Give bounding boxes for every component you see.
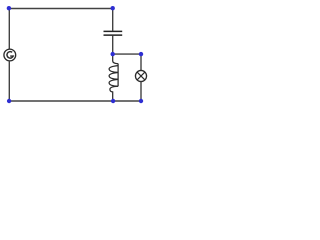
inductor exit loop and bottom lead [110, 86, 118, 101]
wire lamp bottom lead [140, 82, 142, 101]
inductor L coil entry lead [113, 54, 118, 64]
node bottom-right [139, 99, 143, 103]
inductor loop 1 [109, 66, 118, 73]
node top-right [111, 6, 115, 10]
lamp (circle with X) [135, 70, 146, 81]
inductor loop 3 [109, 79, 118, 86]
capacitor C [104, 31, 123, 35]
wire lamp top lead [140, 54, 142, 70]
wire capacitor bottom lead [112, 36, 114, 55]
wire left rail upper (node to generator top) [8, 9, 10, 50]
inductor loop 2 [109, 73, 118, 80]
node junction below capacitor [111, 52, 115, 56]
wire mid horizontal (junction to lamp branch) [113, 53, 141, 55]
wire bottom horizontal [9, 100, 141, 102]
wire left rail lower (generator bottom to node) [8, 61, 10, 101]
node bottom-left [7, 99, 11, 103]
node bottom-middle [111, 99, 115, 103]
inductor right side line [117, 64, 119, 87]
node top-left [7, 6, 11, 10]
node right corner top [139, 52, 143, 56]
generator G source [4, 49, 16, 61]
wire capacitor top lead [112, 9, 114, 31]
wire top horizontal [9, 8, 113, 10]
